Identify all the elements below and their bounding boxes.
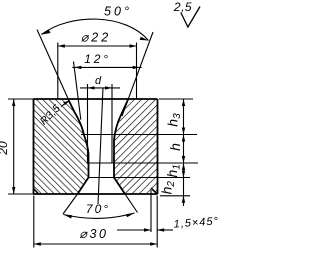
svg-text:12°: 12°: [84, 52, 111, 66]
feature line B (flare/taper boundary): [81, 134, 197, 136]
svg-text:⌀30: ⌀30: [79, 227, 108, 241]
h2 below arrowhead pointing up: [182, 196, 185, 203]
70deg right extension slant: [125, 194, 138, 213]
70deg arc left arrowhead: [64, 215, 73, 219]
12deg right arrowhead: [133, 66, 140, 69]
right half section hatching: [114, 99, 158, 194]
chamfer leader with left-pointing arrow: [157, 229, 173, 231]
50deg arc right arrowhead: [140, 37, 149, 41]
70deg dimension arc: [64, 213, 135, 218]
feature line D (land bottom / 70deg start): [88, 177, 190, 179]
svg-text:70°: 70°: [86, 202, 110, 216]
body outline left edge: [33, 99, 35, 194]
d dimension line: [80, 87, 120, 89]
d left extension line: [87, 84, 89, 163]
h dims vertical dimension line: [183, 99, 185, 196]
50deg left slant extension: [37, 30, 75, 114]
body outline top face: [34, 98, 158, 100]
dia30 right arrowhead: [150, 242, 157, 245]
h3 bottom arrowhead: [182, 128, 185, 135]
body outline right edge: [157, 99, 159, 194]
20 top extension line: [8, 98, 34, 100]
svg-text:2,5: 2,5: [173, 0, 192, 14]
d right arrowhead (inside pointing right): [105, 86, 112, 89]
bottom-left chamfer: [34, 189, 39, 195]
50deg dimension arc: [42, 19, 149, 40]
dia22 left arrowhead: [58, 44, 65, 47]
h bottom arrowhead: [182, 156, 185, 163]
bottom-right chamfer 1.5x45: [151, 188, 157, 194]
dia22 right extension line: [136, 43, 138, 100]
h1 bottom arrowhead: [182, 171, 185, 178]
20 dimension line: [13, 99, 15, 194]
d left arrowhead (inside pointing left): [88, 86, 95, 89]
dia30 left extension line: [33, 196, 35, 248]
hole left profile: 50deg flare, R3.5 blend, land, 70deg exit: [68, 99, 89, 194]
hole right profile: [114, 99, 128, 194]
roughness check symbol: [181, 7, 200, 28]
dia22 left extension line: [57, 43, 59, 100]
dia22 right arrowhead: [130, 44, 137, 47]
12deg left line: [74, 62, 81, 120]
20 bottom arrowhead: [12, 187, 15, 194]
chamfer dim line with right-pointing arrow: [117, 229, 151, 231]
svg-text:h: h: [167, 143, 183, 151]
hole axis centerline: [98, 88, 103, 205]
d right extension line: [111, 84, 113, 163]
dia30 left arrowhead: [34, 242, 41, 245]
svg-text:20: 20: [0, 141, 10, 156]
h top arrowhead: [182, 135, 185, 142]
dia30 dimension line: [34, 243, 157, 245]
chamfer left extension line: [150, 190, 152, 232]
feature line C (land top): [87, 162, 199, 164]
svg-text:50°: 50°: [104, 5, 132, 19]
12deg left arrowhead: [74, 66, 81, 69]
left half section hatching: [34, 99, 89, 194]
50deg arc left arrowhead: [42, 30, 51, 35]
50deg right slant extension: [122, 32, 153, 116]
70deg arc right arrowhead: [126, 213, 135, 217]
h3 top arrowhead: [182, 99, 185, 106]
12deg dimension line: [72, 66, 141, 68]
R3,5 leader arrowhead: [61, 102, 68, 107]
20 bottom extension line: [8, 193, 34, 195]
h1 top arrowhead: [182, 163, 185, 170]
70deg left extension slant: [63, 194, 78, 214]
right extension line top face: [159, 98, 193, 100]
svg-text:d: d: [95, 75, 102, 87]
right bottom face extension: [160, 195, 190, 197]
body bottom face: [34, 193, 158, 195]
dia22 dimension line: [58, 45, 137, 47]
20 top arrowhead: [12, 99, 15, 106]
svg-text:⌀22: ⌀22: [81, 31, 111, 45]
dia30 right extension line: [156, 196, 158, 248]
